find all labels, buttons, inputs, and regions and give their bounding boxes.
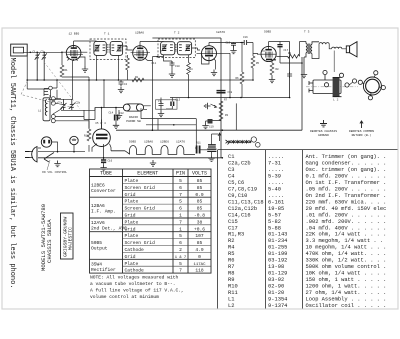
wire R3 avc bbox=[127, 55, 129, 80]
svg-text:R9: R9 bbox=[228, 277, 234, 283]
svg-text:C16: C16 bbox=[243, 36, 248, 39]
ground C12ab bbox=[208, 155, 214, 161]
denotes common return icon bbox=[360, 121, 363, 128]
voice coil loops bbox=[312, 43, 346, 59]
T2 secondary coil marks bbox=[179, 45, 182, 51]
svg-text:Loop Assembly . . . . . .: Loop Assembly . . . . . . bbox=[306, 296, 387, 302]
svg-text:T 3: T 3 bbox=[304, 31, 310, 34]
svg-text:.04 mfd. 400V . . . . . .: .04 mfd. 400V . . . . . . bbox=[306, 225, 387, 231]
ground C19 bbox=[202, 123, 208, 129]
svg-text:9-1374: 9-1374 bbox=[268, 303, 287, 309]
svg-text:50B5: 50B5 bbox=[91, 240, 102, 246]
L1 terminal lugs bbox=[51, 97, 55, 123]
svg-text:12 BE6: 12 BE6 bbox=[69, 33, 80, 36]
switch arm L1 bbox=[53, 109, 62, 115]
tube V2 12BA6 bbox=[131, 42, 151, 61]
resistor R4 bbox=[187, 63, 191, 75]
svg-text:+0.6: +0.6 bbox=[194, 226, 205, 232]
svg-text:6: 6 bbox=[179, 185, 182, 191]
svg-text:C4: C4 bbox=[228, 174, 234, 180]
B- arrow bbox=[218, 133, 221, 141]
wire T1 coils bottom bbox=[97, 55, 119, 80]
dashed gang line 2 bbox=[44, 62, 80, 109]
svg-text:On 2nd I.F. Transformer .: On 2nd I.F. Transformer . bbox=[306, 193, 387, 199]
svg-text:0.1 mfd. 200V . . . . . .: 0.1 mfd. 200V . . . . . . bbox=[306, 174, 387, 180]
T2 primary can bbox=[161, 42, 175, 55]
osc tap circle bbox=[27, 80, 57, 98]
svg-text:5-82: 5-82 bbox=[268, 219, 281, 225]
wire V4 cathode bbox=[272, 60, 276, 77]
phono output wires bbox=[119, 106, 151, 113]
svg-text:7-31: 7-31 bbox=[268, 161, 281, 167]
IF transformer T1 outer box bbox=[90, 39, 126, 59]
wire R4 bbox=[188, 55, 190, 98]
wire V1 plate top bbox=[74, 40, 97, 42]
svg-text:C17: C17 bbox=[284, 49, 289, 52]
twisted wire pictorial bbox=[226, 137, 261, 147]
svg-text:03-92: 03-92 bbox=[268, 277, 284, 283]
svg-text:TUBE: TUBE bbox=[100, 171, 112, 177]
electrolytic C12 bbox=[115, 108, 118, 123]
svg-text:85: 85 bbox=[197, 185, 203, 191]
svg-text:NOTE: All voltages measured w: NOTE: All voltages measured with bbox=[90, 275, 178, 281]
svg-text:R7: R7 bbox=[228, 264, 234, 270]
T1 secondary trimmer bbox=[117, 45, 123, 52]
coupling capacitor C16 bbox=[244, 40, 246, 45]
svg-text:150 ohm, 1 watt . . . . .: 150 ohm, 1 watt . . . . . bbox=[306, 277, 387, 283]
tube V1 12BE6 bbox=[61, 41, 87, 61]
svg-text:5: 5 bbox=[179, 199, 182, 205]
svg-text:220 mmf. 630V mica. . . .: 220 mmf. 630V mica. . . . bbox=[306, 199, 387, 205]
element/pin/volts rows bbox=[125, 178, 156, 274]
box around C9 C13 bbox=[156, 100, 178, 109]
wire C16 to V4 grid bbox=[240, 43, 258, 57]
svg-text:5-39: 5-39 bbox=[268, 174, 281, 180]
svg-text:Output: Output bbox=[91, 246, 108, 252]
ground C10 bbox=[169, 71, 175, 77]
svg-text:13-98: 13-98 bbox=[268, 264, 284, 270]
svg-text:Osc. trimmer (on gang). .: Osc. trimmer (on gang). . bbox=[306, 167, 387, 173]
denotes common return text bbox=[349, 130, 374, 137]
svg-text:01-199: 01-199 bbox=[268, 251, 287, 257]
trimmer C1 bbox=[35, 52, 40, 80]
T1 secondary coil marks bbox=[112, 45, 115, 51]
svg-text:02-90: 02-90 bbox=[268, 283, 284, 289]
resistor R10 bbox=[87, 129, 91, 141]
svg-text:85: 85 bbox=[197, 199, 203, 205]
wire V3 plate top bbox=[209, 42, 243, 44]
parts list bbox=[218, 150, 398, 309]
svg-text:DENOTES CHASSIS: DENOTES CHASSIS bbox=[310, 130, 337, 133]
svg-text:Converter: Converter bbox=[91, 188, 116, 194]
voltage table bbox=[40, 169, 211, 300]
parts list rules bbox=[218, 150, 398, 309]
svg-text:Screen Grid: Screen Grid bbox=[125, 185, 156, 191]
switch arm bbox=[44, 153, 54, 163]
svg-text:.....: ..... bbox=[268, 193, 284, 199]
svg-text:C7: C7 bbox=[158, 100, 162, 103]
svg-text:38: 38 bbox=[197, 219, 203, 225]
B- return wires bbox=[141, 111, 196, 145]
svg-text:.05 mfd. 200V . . . . . .: .05 mfd. 200V . . . . . . bbox=[306, 187, 387, 193]
svg-text:R8: R8 bbox=[276, 68, 280, 71]
T1 primary coil marks bbox=[103, 45, 106, 51]
svg-text:A full line voltage of 117 V.A: A full line voltage of 117 V.A.C., bbox=[90, 288, 184, 294]
switch pointer line bbox=[47, 160, 50, 170]
svg-text:Plate: Plate bbox=[125, 233, 139, 239]
loop pictorial L1 bbox=[358, 71, 385, 100]
wire C9 bbox=[160, 98, 162, 111]
ground C17b bbox=[100, 165, 106, 171]
svg-text:7: 7 bbox=[179, 192, 182, 198]
svg-text:5-88: 5-88 bbox=[268, 225, 281, 231]
resistor R2 bbox=[132, 78, 144, 82]
svg-text:0.9: 0.9 bbox=[195, 192, 204, 198]
tube column entries bbox=[91, 183, 127, 274]
svg-text:R5: R5 bbox=[256, 62, 260, 65]
trimmer C3 bbox=[42, 52, 47, 80]
svg-text:C7,C8,C19: C7,C8,C19 bbox=[228, 187, 257, 193]
note under table bbox=[90, 275, 184, 301]
wire V1 to ground bbox=[68, 57, 86, 66]
svg-text:C12a,C12b: C12a,C12b bbox=[228, 206, 257, 212]
svg-text:C2a: C2a bbox=[58, 102, 63, 105]
svg-text:R4: R4 bbox=[228, 245, 234, 251]
svg-text:20 mfd. 40 mfd. 150V elec: 20 mfd. 40 mfd. 150V elec bbox=[306, 206, 387, 212]
electrolytic C12a C12b bbox=[207, 134, 216, 155]
svg-text:5: 5 bbox=[179, 178, 182, 184]
svg-text:Screen Grid: Screen Grid bbox=[125, 206, 156, 212]
svg-text:PHONO SW: PHONO SW bbox=[126, 120, 141, 123]
svg-text:PIN: PIN bbox=[176, 171, 185, 177]
svg-text:C14,C16: C14,C16 bbox=[228, 212, 251, 218]
svg-text:03-192: 03-192 bbox=[268, 258, 287, 264]
wire R6 bbox=[241, 43, 243, 98]
wire T2 pri bottom bbox=[164, 55, 173, 71]
wire gang top bbox=[48, 60, 72, 100]
svg-text:Grid: Grid bbox=[125, 254, 136, 260]
svg-text:ON VOL CONTROL: ON VOL CONTROL bbox=[42, 171, 67, 174]
wire V5 plate top bbox=[84, 108, 102, 129]
speaker bbox=[346, 42, 357, 57]
T2 primary trimmer bbox=[161, 44, 167, 51]
ground phono left bbox=[116, 113, 122, 119]
resistor R9 bbox=[288, 55, 300, 59]
wire plate line to phono bbox=[95, 107, 123, 109]
loop antenna L1 boxed coil bbox=[43, 98, 50, 121]
wire y131 bus bbox=[116, 57, 302, 130]
svg-text:C15: C15 bbox=[228, 219, 238, 225]
svg-text:C12: C12 bbox=[119, 112, 124, 115]
svg-text:R3: R3 bbox=[225, 114, 229, 117]
wire V2 cathode down bbox=[145, 57, 164, 131]
T2 primary coil marks bbox=[170, 45, 173, 51]
svg-text:Cathode: Cathode bbox=[125, 247, 145, 253]
T2 secondary can bbox=[177, 42, 191, 55]
svg-text:C11,C13,C18: C11,C13,C18 bbox=[228, 199, 264, 205]
svg-text:Cathode: Cathode bbox=[125, 268, 145, 274]
wire V3 cathode bbox=[202, 53, 216, 69]
svg-text:R2: R2 bbox=[135, 76, 139, 79]
svg-text:22K ohm, 1/4 watt . . . .: 22K ohm, 1/4 watt . . . . bbox=[306, 232, 387, 238]
gnd above table bbox=[150, 160, 156, 166]
capacitor C18 coupling bbox=[217, 91, 226, 93]
svg-text:L1: L1 bbox=[38, 110, 42, 113]
T2 secondary trimmer bbox=[185, 44, 191, 51]
tube V4 50B5 bbox=[257, 42, 276, 62]
capacitor C19 box bbox=[208, 119, 213, 124]
svg-text:RADIO: RADIO bbox=[129, 116, 138, 119]
svg-text:107: 107 bbox=[195, 233, 204, 239]
dashed gang linkage bbox=[21, 81, 72, 108]
wire R1 bbox=[62, 52, 104, 129]
svg-text:Plate: Plate bbox=[125, 261, 139, 267]
svg-text:.01 mfd. 200V . . . . . .: .01 mfd. 200V . . . . . . bbox=[306, 212, 387, 218]
svg-text:12BA6: 12BA6 bbox=[91, 203, 105, 209]
svg-text:R11: R11 bbox=[196, 142, 201, 145]
svg-text:C1: C1 bbox=[228, 154, 234, 160]
wire pilot bbox=[38, 145, 85, 152]
svg-text:C2a,C2b: C2a,C2b bbox=[228, 161, 251, 167]
svg-text:6: 6 bbox=[179, 206, 182, 212]
capacitor C10 bbox=[170, 61, 175, 67]
brand box rotated bbox=[61, 213, 74, 259]
svg-text:R1: R1 bbox=[65, 69, 69, 72]
svg-text:Rectifier: Rectifier bbox=[91, 267, 116, 273]
tube V3 12AV6 bbox=[197, 43, 231, 62]
svg-text:R10: R10 bbox=[84, 135, 89, 138]
svg-text:1200 ohm, 1 watt. . . . .: 1200 ohm, 1 watt. . . . . bbox=[306, 283, 387, 289]
capacitor C4 bbox=[119, 80, 124, 86]
pilot lamp bbox=[70, 136, 78, 144]
svg-text:Grid: Grid bbox=[125, 213, 136, 219]
wire gang drops bbox=[84, 107, 95, 128]
heater labels bbox=[129, 141, 185, 144]
table grid bbox=[90, 169, 212, 273]
AC plug bbox=[25, 147, 37, 163]
svg-text:470K ohm, 1/4 watt. . . .: 470K ohm, 1/4 watt. . . . bbox=[306, 251, 387, 257]
svg-text:Screen Grid: Screen Grid bbox=[125, 240, 156, 246]
IF transformer T2 outer box bbox=[158, 39, 195, 57]
svg-text:C18: C18 bbox=[228, 91, 233, 94]
svg-text:Gang condenser. . . . . .: Gang condenser. . . . . . bbox=[306, 161, 387, 167]
ground T3 bbox=[301, 72, 307, 78]
T1 secondary can bbox=[110, 41, 122, 55]
svg-text:C10: C10 bbox=[175, 65, 180, 68]
T1 primary can bbox=[94, 41, 106, 55]
svg-text:Ant. Trimmer (on gang). .: Ant. Trimmer (on gang). . bbox=[306, 154, 387, 160]
output transformer T3 bbox=[300, 42, 320, 72]
heater string bbox=[111, 146, 195, 155]
label radio phono bbox=[126, 116, 141, 123]
capacitor C17b bbox=[101, 158, 106, 165]
svg-text:Plate: Plate bbox=[125, 199, 139, 205]
svg-text:T 2: T 2 bbox=[174, 32, 180, 35]
top section labels bbox=[69, 31, 310, 36]
ground C9 bbox=[158, 111, 164, 117]
ground switch bbox=[54, 161, 60, 167]
svg-text:01-143: 01-143 bbox=[268, 232, 287, 238]
svg-text:.....: ..... bbox=[268, 180, 284, 186]
svg-text:-0.8: -0.8 bbox=[194, 213, 205, 219]
denotes chassis ground text bbox=[310, 130, 337, 137]
wire antenna feed y52.3 bbox=[24, 51, 62, 53]
wire T1 sec to V2 grid bbox=[123, 46, 133, 50]
svg-text:R8: R8 bbox=[228, 271, 234, 277]
svg-text:MAJESTIC: MAJESTIC bbox=[68, 227, 74, 250]
svg-text:R10: R10 bbox=[228, 283, 238, 289]
wire bus segment to R6 bbox=[144, 79, 253, 81]
capacitor C17 tone bbox=[277, 42, 302, 64]
resistor R1 bbox=[60, 65, 64, 77]
T2 core bbox=[176, 44, 177, 52]
wire screen bus y97.5 bbox=[170, 97, 290, 99]
svg-text:330K ohm, 1/2 watt. . . .: 330K ohm, 1/2 watt. . . . bbox=[306, 258, 387, 264]
svg-text:85: 85 bbox=[197, 240, 203, 246]
svg-text:35 W 4: 35 W 4 bbox=[95, 122, 106, 125]
svg-text:Plate: Plate bbox=[125, 178, 139, 184]
resistor R6 bbox=[240, 72, 244, 84]
wire V2 plate top bbox=[140, 41, 164, 43]
gang trimmer C2a bbox=[61, 99, 67, 110]
wire R10 bbox=[88, 145, 90, 152]
svg-text:5: 5 bbox=[179, 233, 182, 239]
volume pot R7 vertical bbox=[211, 101, 223, 121]
svg-text:T 1: T 1 bbox=[104, 33, 110, 36]
wire R9 bbox=[277, 42, 300, 57]
svg-text:1 & 7: 1 & 7 bbox=[175, 256, 186, 260]
svg-text:C16: C16 bbox=[108, 160, 113, 163]
svg-text:C3: C3 bbox=[228, 167, 234, 173]
svg-text:Grid: Grid bbox=[125, 192, 136, 198]
wire C19 bbox=[206, 121, 222, 123]
svg-text:118: 118 bbox=[195, 268, 204, 274]
svg-text:GROUND: GROUND bbox=[318, 134, 329, 137]
svg-text:a vacuum tube voltmeter to: a vacuum tube voltmeter to B--. bbox=[90, 281, 175, 287]
svg-text:10K ohm, 1/4 watt . . . .: 10K ohm, 1/4 watt . . . . bbox=[306, 271, 387, 277]
ground V3 cathode bbox=[211, 70, 217, 76]
svg-text:R1,R3: R1,R3 bbox=[228, 232, 244, 238]
svg-text:DENOTES COMMON: DENOTES COMMON bbox=[349, 130, 374, 133]
svg-text:R7: R7 bbox=[224, 99, 228, 102]
svg-text:R2: R2 bbox=[228, 238, 234, 244]
svg-text:ELEMENT: ELEMENT bbox=[137, 171, 158, 177]
svg-text:C2b: C2b bbox=[76, 101, 81, 105]
capacitor C15 bbox=[287, 72, 292, 78]
svg-text:C9,C10: C9,C10 bbox=[228, 193, 247, 199]
ground C12 bbox=[113, 122, 119, 128]
svg-text:CHASSIS 5BU5A: CHASSIS 5BU5A bbox=[46, 219, 53, 263]
svg-text:85: 85 bbox=[197, 206, 203, 212]
svg-text:01-129: 01-129 bbox=[268, 271, 287, 277]
svg-text:R11: R11 bbox=[228, 290, 238, 296]
svg-text:12BA6: 12BA6 bbox=[135, 32, 144, 35]
svg-text:C15: C15 bbox=[226, 42, 231, 45]
phono pickup capsule bbox=[123, 104, 143, 111]
ground V4 cathode bbox=[269, 77, 275, 83]
svg-text:6-161: 6-161 bbox=[268, 199, 284, 205]
svg-text:C11: C11 bbox=[152, 62, 157, 65]
svg-text:C14: C14 bbox=[109, 112, 114, 115]
svg-text:12AV6: 12AV6 bbox=[91, 220, 105, 226]
svg-text:VOLTS: VOLTS bbox=[192, 171, 207, 177]
svg-text:12AT6: 12AT6 bbox=[176, 141, 185, 144]
svg-text:5-40: 5-40 bbox=[268, 187, 281, 193]
svg-text:L2: L2 bbox=[228, 303, 234, 309]
wire B+ bus y80 bbox=[27, 79, 144, 81]
svg-text:I.F. Amp.: I.F. Amp. bbox=[91, 209, 116, 215]
wire R5 bbox=[252, 68, 254, 80]
capacitor C9 bypass bbox=[159, 102, 164, 108]
svg-text:Oscillator coil . . . . .: Oscillator coil . . . . . bbox=[306, 303, 387, 309]
svg-text:5: 5 bbox=[179, 261, 182, 267]
svg-text:R5: R5 bbox=[228, 251, 234, 257]
denotes chassis ground icon bbox=[320, 120, 327, 127]
wire diode line drop bbox=[229, 53, 231, 97]
svg-text:C13: C13 bbox=[176, 99, 181, 102]
svg-text:0: 0 bbox=[198, 254, 201, 260]
svg-text:.....: ..... bbox=[268, 154, 284, 160]
svg-text:R6: R6 bbox=[236, 77, 240, 80]
antenna loop pictorial box bbox=[11, 44, 28, 56]
svg-text:7: 7 bbox=[179, 219, 182, 225]
svg-text:R4: R4 bbox=[190, 68, 194, 71]
svg-text:85: 85 bbox=[197, 178, 203, 184]
svg-text:C19: C19 bbox=[209, 126, 214, 129]
svg-text:01-20: 01-20 bbox=[268, 290, 284, 296]
svg-text:L1: L1 bbox=[228, 296, 234, 302]
wire T2 sec to V3 bbox=[192, 48, 200, 50]
wire pot right drop bbox=[235, 103, 237, 130]
svg-text:L 2: L 2 bbox=[333, 99, 339, 102]
svg-text:Model 5AWT11, Chassis 5BU1A is: Model 5AWT11, Chassis 5BU1A is similar, … bbox=[8, 58, 16, 289]
svg-text:R6: R6 bbox=[228, 258, 234, 264]
svg-text:10 megohm, 1/4 watt . . .: 10 megohm, 1/4 watt . . . bbox=[306, 245, 387, 251]
svg-text:01-234: 01-234 bbox=[268, 238, 287, 244]
svg-text:.002 mfd. 200V. . . . . .: .002 mfd. 200V. . . . . . bbox=[306, 219, 387, 225]
svg-text:7: 7 bbox=[179, 268, 182, 274]
svg-text:12BA6: 12BA6 bbox=[144, 141, 153, 144]
ground V1 cathode bbox=[82, 66, 88, 72]
wire V4 plate top bbox=[269, 42, 290, 98]
svg-text:3.3 megohm, 1/4 watt . .: 3.3 megohm, 1/4 watt . . bbox=[306, 238, 384, 244]
ground C4 bbox=[118, 87, 124, 93]
ground pot wiper bbox=[204, 103, 210, 109]
wire L1 top to gang bbox=[50, 95, 95, 121]
svg-text:117AC: 117AC bbox=[193, 263, 206, 267]
ground C15 bbox=[230, 48, 236, 54]
component ref labels bbox=[33, 36, 292, 163]
svg-text:volume control at minimum: volume control at minimum bbox=[90, 294, 159, 300]
svg-text:9-1354: 9-1354 bbox=[268, 296, 287, 302]
svg-text:500K ohm volume control .: 500K ohm volume control . bbox=[306, 264, 387, 270]
coil form pictorial L2 bbox=[306, 70, 358, 96]
svg-text:12BE6: 12BE6 bbox=[91, 183, 105, 189]
gang trimmer C2b bbox=[69, 99, 75, 110]
wire to B- bbox=[212, 133, 219, 135]
resistor R11 bbox=[195, 146, 200, 154]
svg-text:Plate: Plate bbox=[125, 219, 139, 225]
svg-text:50B5: 50B5 bbox=[129, 141, 136, 144]
svg-text:R9: R9 bbox=[288, 52, 292, 55]
tube V5 35W4 bbox=[92, 120, 111, 158]
voice coil return bbox=[333, 51, 335, 73]
svg-text:50B5: 50B5 bbox=[264, 31, 271, 34]
svg-text:35W4: 35W4 bbox=[91, 261, 102, 267]
resistor R5 bbox=[251, 56, 255, 68]
svg-text:12BE6: 12BE6 bbox=[160, 141, 169, 144]
svg-text:.....: ..... bbox=[268, 167, 284, 173]
